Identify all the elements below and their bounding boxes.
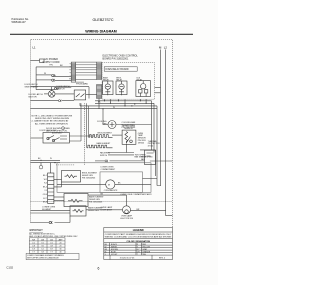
door latch switch label left margin xyxy=(25,83,39,89)
box A right label xyxy=(82,173,98,180)
fan switch wires xyxy=(108,150,172,176)
connector strip P2 xyxy=(97,62,102,79)
svg-text:ALL TIMES WHEN IN OPERATION: ALL TIMES WHEN IN OPERATION xyxy=(35,122,68,125)
svg-text:IMPORTANT:: IMPORTANT: xyxy=(29,229,43,232)
svg-text:KW: KW xyxy=(32,239,35,241)
A/C power supply cord label xyxy=(43,58,60,66)
cooling fan labels xyxy=(97,121,107,126)
legend table xyxy=(104,228,173,260)
door latch motor xyxy=(44,87,55,98)
svg-text:CONV FAN MTR: CONV FAN MTR xyxy=(104,189,118,192)
svg-text:COLOR / DESIGNATION: COLOR / DESIGNATION xyxy=(126,240,150,243)
inline connector pair xyxy=(49,221,52,223)
svg-text:GLEB27S7C: GLEB27S7C xyxy=(93,18,115,22)
inner compartment box xyxy=(100,172,143,193)
lower dashed partition xyxy=(31,200,173,202)
connector strip P1 pin ticks xyxy=(70,64,71,79)
svg-text:20: 20 xyxy=(60,246,62,248)
svg-text:R-3: R-3 xyxy=(44,183,47,185)
svg-text:COMPARTMENT: COMPARTMENT xyxy=(101,168,116,171)
svg-text:ASSEMBLY: ASSEMBLY xyxy=(52,131,63,134)
oven sensor label xyxy=(122,126,136,131)
svg-text:5995441137: 5995441137 xyxy=(12,20,27,24)
svg-text:3.1: 3.1 xyxy=(41,242,43,244)
terminal block strip xyxy=(48,173,54,203)
lower oven enclosure box xyxy=(57,163,151,193)
high speed label xyxy=(141,157,153,161)
cooling fan wires xyxy=(103,109,152,125)
lower left wires xyxy=(31,210,123,223)
svg-text:VIOLET: VIOLET xyxy=(111,254,118,256)
svg-text:4.8: 4.8 xyxy=(32,246,34,248)
sensor drop wire xyxy=(125,144,127,152)
svg-text:(TOD): (TOD) xyxy=(148,146,154,148)
chassis dashed frame xyxy=(31,40,173,228)
element box C xyxy=(70,206,86,216)
bus L2 xyxy=(165,50,167,216)
svg-text:OR-6: OR-6 xyxy=(43,194,47,196)
junction dots below EOC xyxy=(102,100,146,109)
svg-text:WITH UPPER OVEN IN CLEAN MODE: WITH UPPER OVEN IN CLEAN MODE xyxy=(27,257,59,260)
svg-text:W-2: W-2 xyxy=(44,179,47,181)
svg-text:REV. 0: REV. 0 xyxy=(159,257,166,259)
terminal node circle xyxy=(39,165,43,169)
svg-text:Publication No.: Publication No. xyxy=(12,17,30,21)
svg-text:BAKE ELEMENT: BAKE ELEMENT xyxy=(97,142,112,145)
svg-text:L2: L2 xyxy=(164,46,168,50)
relay section labels xyxy=(103,77,143,82)
svg-text:Y-5: Y-5 xyxy=(44,190,47,192)
svg-text:BK-1: BK-1 xyxy=(43,175,47,177)
svg-text:P/N BOARD: P/N BOARD xyxy=(76,83,88,86)
box C left label xyxy=(42,206,55,211)
svg-text:LIGHT ASSY: LIGHT ASSY xyxy=(101,208,113,211)
svg-text:RELAY: RELAY xyxy=(137,79,144,82)
svg-text:SUPPLY CORD: SUPPLY CORD xyxy=(43,61,60,64)
relay K3 DLB xyxy=(136,81,151,97)
wires below EOC xyxy=(31,87,161,185)
svg-text:DOOR LATCH: DOOR LATCH xyxy=(29,93,44,96)
svg-text:SWITCH: SWITCH xyxy=(100,155,108,157)
conv fan motor xyxy=(106,180,115,189)
wires latch assembly xyxy=(31,136,96,138)
oven lamp xyxy=(123,206,131,214)
svg-text:SERVICING UNIT. WIRING SHOWN: SERVICING UNIT. WIRING SHOWN xyxy=(35,118,70,120)
door latch switch label xyxy=(57,85,71,90)
svg-text:4.8: 4.8 xyxy=(50,246,52,248)
EOC label xyxy=(103,55,139,61)
svg-text:P/N: P/N xyxy=(49,64,53,66)
svg-text:NOTE: 1- DISCONNECT POWER BEFO: NOTE: 1- DISCONNECT POWER BEFORE xyxy=(32,115,73,117)
latch switch assembly box xyxy=(43,133,69,144)
svg-text:SENSOR: SENSOR xyxy=(124,128,133,130)
svg-text:OVEN RELAY BOARD: OVEN RELAY BOARD xyxy=(105,68,129,71)
connector strip P1 xyxy=(71,62,75,82)
header publication number xyxy=(12,17,30,24)
svg-text:LEGEND: LEGEND xyxy=(133,228,144,232)
broil element square-wave xyxy=(89,135,113,138)
plug connector pair 1 xyxy=(52,75,55,77)
lower bake element box B xyxy=(64,194,88,207)
svg-text:BOARD P/N 318022001: BOARD P/N 318022001 xyxy=(103,58,129,61)
svg-text:SWITCH: SWITCH xyxy=(57,89,65,91)
svg-text:P/N 318255006: P/N 318255006 xyxy=(89,201,102,203)
legend bottom row xyxy=(120,257,166,259)
important table grid xyxy=(29,238,65,254)
svg-text:W: W xyxy=(44,73,46,75)
oven lamp labels xyxy=(101,206,113,212)
notes block xyxy=(32,115,73,132)
svg-text:20: 20 xyxy=(60,242,62,244)
svg-text:3400W 240V: 3400W 240V xyxy=(88,210,100,212)
svg-text:1: 1 xyxy=(70,63,71,65)
lamp wires xyxy=(88,195,172,216)
plug connector pair 2 xyxy=(52,79,55,81)
thermal switch label xyxy=(148,140,160,148)
compartment feed wire xyxy=(143,177,158,179)
svg-text:9: 9 xyxy=(70,75,71,77)
fan switch label xyxy=(135,154,147,158)
inline connector on feed wire xyxy=(105,160,108,162)
enclosure inner label xyxy=(101,167,116,171)
svg-text:C102: C102 xyxy=(6,266,13,270)
svg-text:LIGHT P/N 316: LIGHT P/N 316 xyxy=(120,218,133,220)
board outline bridging P1-P2 xyxy=(76,62,97,82)
svg-text:208: 208 xyxy=(41,239,44,241)
svg-text:3: 3 xyxy=(70,66,71,68)
svg-text:P/N 318254906: P/N 318254906 xyxy=(82,178,95,180)
svg-text:6.9: 6.9 xyxy=(50,249,52,251)
important note row xyxy=(26,253,79,259)
svg-text:W: W xyxy=(50,158,52,160)
important table cells xyxy=(32,238,63,253)
relay K2 xyxy=(116,81,127,95)
legend description xyxy=(105,233,172,239)
wire below motor xyxy=(31,100,75,102)
oven sensor box xyxy=(122,130,136,144)
svg-text:189500: 189500 xyxy=(138,142,144,144)
terminal block labels xyxy=(43,175,47,204)
relay K1 xyxy=(103,81,113,95)
terminal block wires xyxy=(54,180,64,201)
svg-text:5: 5 xyxy=(70,69,71,71)
bake element square-wave xyxy=(87,145,113,148)
EOC dashed box xyxy=(102,63,154,100)
label oven relay board lower xyxy=(76,83,88,86)
fan switch box xyxy=(145,150,156,164)
svg-text:11: 11 xyxy=(69,78,71,80)
door latch motor label xyxy=(29,93,44,99)
svg-text:W: W xyxy=(113,107,115,109)
svg-text:M: M xyxy=(108,185,110,187)
svg-text:BROIL ELEMENT: BROIL ELEMENT xyxy=(98,132,113,134)
power cord wires xyxy=(31,59,72,90)
plug connector pair 3 xyxy=(54,87,57,89)
fan switch feed wire xyxy=(95,160,145,162)
note symbol circle xyxy=(62,127,65,130)
oven relay board boxed label xyxy=(104,67,137,71)
sensor wire xyxy=(112,134,122,136)
legend rows xyxy=(105,243,151,256)
wires door latch area xyxy=(31,87,97,99)
svg-text:WIRING CODES AND COLOR DESIGNA: WIRING CODES AND COLOR DESIGNATIONS ARE … xyxy=(105,236,172,239)
svg-text:6.9: 6.9 xyxy=(32,249,34,251)
broil element box A xyxy=(62,171,81,183)
svg-text:BR-8: BR-8 xyxy=(43,202,47,204)
header rule xyxy=(10,33,193,35)
svg-text:AND LOCALLY APPROVED. USE COPP: AND LOCALLY APPROVED. USE COPPER WIRE ON… xyxy=(29,235,78,238)
svg-text:MOTOR: MOTOR xyxy=(29,97,38,99)
svg-text:7: 7 xyxy=(70,72,71,74)
svg-text:240: 240 xyxy=(50,239,53,241)
svg-text:GY-7: GY-7 xyxy=(43,198,47,200)
svg-text:6: 6 xyxy=(98,267,100,271)
box C right label xyxy=(88,206,103,212)
oven sensor right label xyxy=(138,133,147,145)
oven lamp bottom label xyxy=(120,215,133,221)
svg-text:2- CABINET MUST BE GROUNDED AT: 2- CABINET MUST BE GROUNDED AT xyxy=(32,120,70,123)
svg-text:4.1: 4.1 xyxy=(32,242,34,244)
inline connector below motor xyxy=(58,100,61,102)
important table xyxy=(29,229,78,238)
riser wires xyxy=(69,103,88,165)
svg-text:3.6: 3.6 xyxy=(41,246,43,248)
svg-text:WIRING DIAGRAM: WIRING DIAGRAM xyxy=(85,30,117,34)
cooling fan right label xyxy=(122,121,137,129)
svg-text:4.1: 4.1 xyxy=(50,242,52,244)
cooling fan motor xyxy=(108,121,116,129)
bus M xyxy=(160,50,162,187)
latch assembly label xyxy=(40,129,64,135)
svg-text:L1: L1 xyxy=(33,46,37,50)
latch switch box xyxy=(74,90,86,100)
connector strip P3 xyxy=(97,85,102,99)
junction dots mid-left xyxy=(40,160,55,164)
P1 pin numbers xyxy=(69,63,71,80)
svg-text:FAN: FAN xyxy=(141,158,145,161)
svg-text:30: 30 xyxy=(60,249,62,251)
box B right label xyxy=(89,195,104,203)
conv fan wires xyxy=(57,183,151,185)
svg-text:5.2: 5.2 xyxy=(41,249,43,251)
harness wires between connectors xyxy=(76,65,97,75)
svg-text:3 1620 05 07 03: 3 1620 05 07 03 xyxy=(120,257,135,259)
svg-text:BK-4: BK-4 xyxy=(43,186,47,188)
junction wires mid-left xyxy=(31,160,76,173)
